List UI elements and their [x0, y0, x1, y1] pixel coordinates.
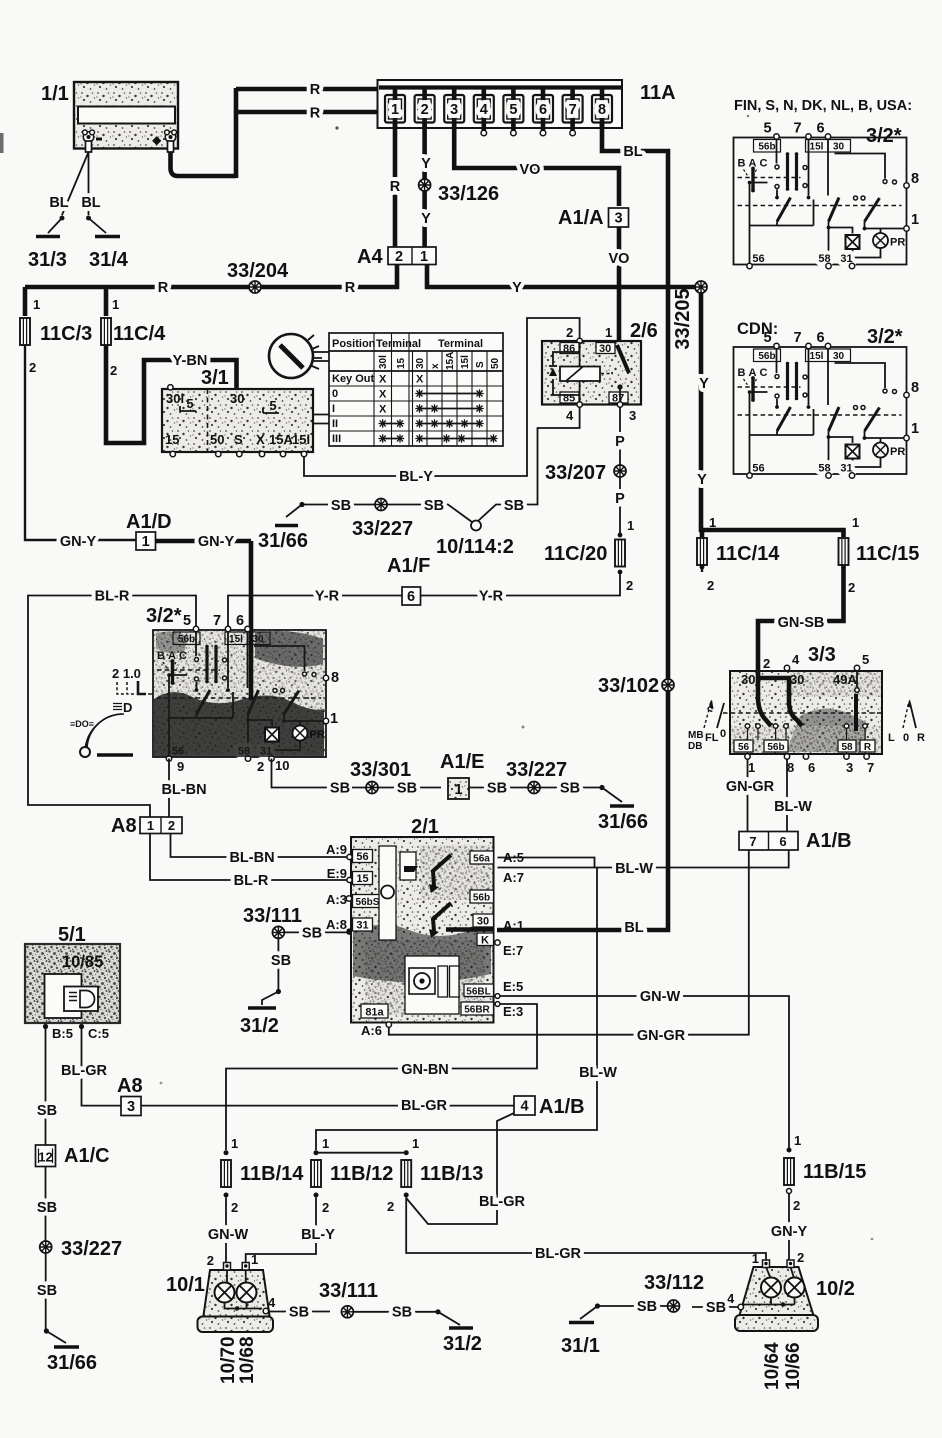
wire BL-W A1/B to 2/1 A:5 A:7 — [498, 850, 789, 877]
svg-text:33/111: 33/111 — [319, 1280, 378, 1302]
svg-text:SB: SB — [331, 498, 351, 514]
fuse 11B/12 — [311, 1136, 393, 1215]
svg-text:4: 4 — [520, 1099, 528, 1115]
ignition key symbol — [269, 334, 329, 378]
ground 31/1 — [561, 1323, 600, 1358]
connector A1/B pins 7 6 — [739, 830, 852, 852]
wire GN-Y 11B/15 to lamp 10/2 — [771, 1194, 808, 1267]
svg-text:10/70: 10/70 — [218, 1336, 239, 1384]
svg-text:1: 1 — [752, 1251, 759, 1266]
svg-text:11B/13: 11B/13 — [420, 1163, 483, 1185]
svg-text:1: 1 — [911, 212, 919, 228]
svg-text:56b: 56b — [767, 742, 784, 753]
svg-text:I: I — [332, 403, 335, 415]
svg-text:GN-Y: GN-Y — [198, 534, 235, 550]
fuse 11C/4 — [101, 287, 166, 378]
connector A8 pin 3 — [117, 1075, 143, 1116]
dimmer control symbol — [70, 666, 153, 757]
svg-text:56: 56 — [356, 851, 368, 863]
svg-text:BL-BN: BL-BN — [229, 850, 274, 866]
svg-text:4: 4 — [792, 652, 800, 667]
svg-text:5: 5 — [269, 398, 276, 413]
svg-text:0: 0 — [720, 728, 726, 740]
connector A1/A pin 3 — [558, 207, 629, 229]
svg-text:SB: SB — [289, 1305, 309, 1321]
svg-text:L: L — [888, 732, 895, 744]
svg-text:VO: VO — [609, 251, 630, 267]
svg-text:56BL: 56BL — [466, 987, 490, 998]
svg-text:1: 1 — [147, 818, 154, 833]
svg-text:GN-GR: GN-GR — [726, 779, 775, 795]
svg-text:15l: 15l — [292, 432, 310, 447]
svg-text:X: X — [416, 374, 424, 386]
svg-text:11C/20: 11C/20 — [544, 543, 607, 565]
svg-text:2: 2 — [395, 249, 403, 265]
svg-text:31/1: 31/1 — [561, 1335, 600, 1357]
svg-text:1: 1 — [605, 325, 612, 340]
svg-text:6: 6 — [779, 834, 786, 849]
fuse 11C/3 — [20, 287, 92, 375]
svg-text:1: 1 — [142, 534, 150, 550]
svg-text:8: 8 — [787, 760, 794, 775]
svg-text:5: 5 — [862, 652, 869, 667]
svg-text:7: 7 — [749, 834, 756, 849]
fuse 11C/20 — [544, 518, 634, 593]
svg-text:2: 2 — [421, 102, 429, 118]
svg-text:BL: BL — [49, 195, 68, 211]
wire BL-GR A8 to A1/B 4 — [141, 1098, 514, 1114]
svg-text:4: 4 — [727, 1291, 735, 1306]
rotated labels 10/70 10/68 — [218, 1336, 258, 1384]
relay 2/6 — [542, 320, 658, 423]
svg-text:SB: SB — [37, 1103, 57, 1119]
svg-text:D: D — [123, 700, 132, 715]
svg-text:E:9: E:9 — [327, 866, 347, 881]
svg-text:30: 30 — [415, 357, 426, 369]
svg-text:A8: A8 — [117, 1075, 143, 1097]
svg-text:11C/14: 11C/14 — [716, 543, 780, 565]
svg-text:1: 1 — [391, 102, 399, 118]
splice 33/111 lower — [319, 1280, 378, 1318]
svg-text:56BR: 56BR — [464, 1005, 490, 1016]
svg-text:A4: A4 — [357, 246, 383, 268]
svg-text:5: 5 — [509, 102, 517, 118]
svg-text:3: 3 — [127, 1099, 135, 1115]
wire SB A1/C to 33/227 — [37, 1167, 57, 1242]
svg-text:SB: SB — [330, 781, 350, 797]
svg-text:BL-W: BL-W — [774, 799, 812, 815]
svg-text:15: 15 — [396, 357, 407, 369]
svg-text:2: 2 — [322, 1200, 329, 1215]
svg-text:2: 2 — [707, 578, 714, 593]
svg-text:56a: 56a — [473, 854, 490, 865]
ground 31/4 — [89, 237, 129, 272]
svg-text:7: 7 — [867, 760, 874, 775]
svg-text:6: 6 — [808, 760, 815, 775]
connector A8 pins 1 2 — [111, 815, 182, 837]
svg-text:1: 1 — [420, 249, 428, 265]
svg-text:86: 86 — [563, 343, 575, 355]
wire BL battery to grounds — [48, 152, 106, 233]
svg-text:2: 2 — [763, 656, 770, 671]
ground 31/3 — [28, 237, 67, 272]
svg-text:1: 1 — [33, 297, 40, 312]
svg-text:31/66: 31/66 — [47, 1352, 97, 1374]
svg-text:33/102: 33/102 — [598, 675, 659, 697]
svg-text:GN-W: GN-W — [640, 989, 681, 1005]
svg-text:GN-GR: GN-GR — [637, 1028, 686, 1044]
rotated labels 10/64 10/66 — [762, 1342, 804, 1390]
svg-text:A8: A8 — [111, 815, 137, 837]
svg-text:BL: BL — [624, 920, 643, 936]
svg-text:1: 1 — [251, 1252, 258, 1267]
svg-text:30: 30 — [741, 672, 755, 687]
svg-text:30: 30 — [477, 916, 489, 928]
svg-text:VO: VO — [520, 162, 541, 178]
fuse 11B/14 — [221, 1136, 304, 1215]
svg-text:12: 12 — [38, 1150, 52, 1165]
battery 1/1 — [41, 82, 178, 152]
svg-text:BL-W: BL-W — [615, 861, 653, 877]
wire BL-GR 5/1 C:5 to A8 — [61, 1029, 121, 1106]
svg-text:BL: BL — [81, 195, 100, 211]
svg-text:4: 4 — [480, 102, 488, 118]
svg-text:Y: Y — [699, 376, 709, 392]
indicator arrows right of 3/3 — [888, 699, 925, 744]
svg-text:A1/C: A1/C — [64, 1145, 110, 1167]
wire BL fuse8 down — [497, 122, 668, 936]
svg-text:10/66: 10/66 — [783, 1342, 804, 1390]
wire Y fuse2 to A4 — [421, 122, 431, 247]
svg-text:C:5: C:5 — [88, 1026, 109, 1041]
wire BL-W 3/3 pin8 to A1/B — [774, 760, 812, 832]
ground 31/2 lower — [443, 1328, 482, 1355]
fuse 11B/15 — [784, 1133, 866, 1213]
svg-text:E:5: E:5 — [503, 979, 523, 994]
svg-text:R: R — [345, 280, 356, 296]
svg-text:1: 1 — [330, 711, 338, 727]
splice 33/301 — [350, 759, 411, 794]
svg-text:10/2: 10/2 — [816, 1278, 855, 1300]
svg-text:11C/3: 11C/3 — [40, 323, 92, 345]
svg-text:2: 2 — [566, 325, 573, 340]
svg-text:33/204: 33/204 — [227, 260, 289, 282]
wire bridge 11B/12 11B/13 pins 1 — [316, 1152, 406, 1154]
connector A1/D pin 1 — [126, 511, 172, 550]
svg-text:33/112: 33/112 — [644, 1272, 704, 1294]
splice 33/126 — [419, 179, 500, 205]
svg-text:R: R — [864, 742, 872, 753]
svg-text:1: 1 — [454, 782, 462, 798]
wire SB 33/227 to ground 31/66 — [37, 1253, 66, 1343]
svg-text:2: 2 — [848, 580, 855, 595]
wire SB to ground 31/66 — [286, 498, 472, 522]
splice 33/102 — [598, 675, 674, 697]
svg-text:2/1: 2/1 — [411, 816, 439, 838]
connector A1/E pin 1 — [440, 751, 484, 799]
svg-text:11C/15: 11C/15 — [856, 543, 919, 565]
svg-text:A:6: A:6 — [361, 1023, 382, 1038]
svg-text:50: 50 — [490, 357, 501, 369]
svg-text:10: 10 — [275, 758, 289, 773]
svg-text:A:9: A:9 — [326, 842, 347, 857]
svg-text:SB: SB — [397, 781, 417, 797]
svg-text:5: 5 — [186, 396, 193, 411]
svg-text:2: 2 — [387, 1199, 394, 1214]
fuse box 11A — [378, 80, 676, 128]
wire BL-R A8 to 2/1 E:9 — [150, 834, 351, 890]
svg-text:50: 50 — [210, 432, 224, 447]
svg-text:30: 30 — [790, 672, 804, 687]
svg-text:11A: 11A — [640, 82, 676, 104]
svg-text:10/68: 10/68 — [237, 1336, 258, 1384]
svg-text:2: 2 — [231, 1200, 238, 1215]
splice 33/227 mid — [506, 759, 567, 794]
connector 10/114:2 — [436, 521, 514, 559]
svg-text:BL-R: BL-R — [234, 873, 269, 889]
svg-text:4: 4 — [268, 1295, 276, 1310]
svg-text:15A: 15A — [269, 432, 293, 447]
svg-text:K: K — [481, 935, 489, 947]
svg-text:81a: 81a — [365, 1007, 384, 1019]
svg-text:1: 1 — [709, 515, 716, 530]
svg-text:1: 1 — [852, 515, 859, 530]
svg-text:6: 6 — [539, 102, 547, 118]
svg-text:3: 3 — [846, 760, 853, 775]
indicator arrows left of 3/3 — [688, 700, 726, 752]
svg-text:X: X — [379, 404, 387, 416]
svg-text:3/2*: 3/2* — [146, 605, 182, 627]
splice 33/227 lower — [40, 1238, 122, 1260]
svg-text:SB: SB — [302, 925, 322, 941]
svg-text:GN-Y: GN-Y — [771, 1224, 808, 1240]
svg-text:5/1: 5/1 — [58, 924, 86, 946]
svg-text:R: R — [917, 732, 925, 744]
svg-text:2: 2 — [207, 1253, 214, 1268]
svg-text:A1/B: A1/B — [806, 830, 852, 852]
svg-text:33/227: 33/227 — [352, 518, 413, 540]
svg-text:SB: SB — [37, 1200, 57, 1216]
svg-text:A:1: A:1 — [503, 918, 524, 933]
svg-text:III: III — [332, 433, 341, 445]
svg-text:Y-R: Y-R — [315, 589, 340, 605]
svg-text:BL-Y: BL-Y — [301, 1227, 335, 1243]
svg-text:1/1: 1/1 — [41, 83, 69, 105]
wire Y-R 11C/20 to A1/F to switch pin 7 — [228, 574, 620, 628]
wire GN-GR 3/3 pin1 to A1/B — [726, 760, 775, 832]
svg-text:SB: SB — [637, 1299, 657, 1315]
wire SB relay 85 to 10/114:2 — [478, 407, 580, 521]
wire SB 2/1 A:8 to 33/111 — [285, 925, 352, 941]
svg-text:4: 4 — [566, 408, 574, 423]
svg-text:10/85: 10/85 — [62, 953, 103, 971]
wire SB 33/111 to ground 31/2 — [262, 939, 291, 1006]
svg-text:8: 8 — [598, 102, 606, 118]
svg-text:7: 7 — [569, 102, 577, 118]
svg-text:A1/D: A1/D — [126, 511, 172, 533]
wire R battery to fusebox — [171, 82, 379, 178]
svg-text:A1/F: A1/F — [387, 555, 430, 577]
svg-text:8: 8 — [331, 670, 339, 686]
splice 33/111 upper — [243, 905, 302, 938]
svg-text:BL-GR: BL-GR — [401, 1098, 447, 1114]
svg-text:49A: 49A — [833, 672, 857, 687]
wire SB 5/1 B:5 to A1/C — [37, 1029, 57, 1145]
switch module 3/3 — [723, 644, 882, 775]
svg-text:≡DO≡: ≡DO≡ — [70, 719, 94, 729]
svg-text:8: 8 — [911, 171, 919, 187]
svg-text:Key Out: Key Out — [332, 373, 375, 385]
svg-text:SB: SB — [424, 498, 444, 514]
svg-text:FL: FL — [705, 732, 719, 744]
fuses 1-8 in 11A — [385, 88, 612, 136]
wire R A4 to left — [25, 265, 397, 297]
ground 31/66 lower — [47, 1347, 97, 1374]
svg-text:2: 2 — [29, 360, 36, 375]
svg-text:33/301: 33/301 — [350, 759, 411, 781]
svg-text:X: X — [379, 374, 387, 386]
svg-text:30l: 30l — [166, 391, 184, 406]
svg-text:E:7: E:7 — [503, 943, 523, 958]
svg-text:2: 2 — [110, 363, 117, 378]
svg-text:BL-W: BL-W — [579, 1065, 617, 1081]
svg-text:30: 30 — [599, 343, 611, 355]
svg-text:15A: 15A — [445, 352, 456, 370]
wire GN-W 2/1 E:5 to 11B/15 — [495, 989, 789, 1148]
svg-text:10/64: 10/64 — [762, 1342, 783, 1390]
wire SB lamp 10/2 to ground 31/1 — [580, 1299, 738, 1319]
splice 33/227 upper — [352, 499, 413, 541]
svg-text:MB: MB — [688, 730, 704, 741]
svg-text:56bS: 56bS — [356, 897, 380, 908]
svg-text:Position: Position — [332, 338, 376, 350]
svg-text:56b: 56b — [473, 893, 490, 904]
svg-text:GN-SB: GN-SB — [778, 615, 825, 631]
svg-text:6: 6 — [407, 589, 415, 605]
svg-text:SB: SB — [487, 781, 507, 797]
svg-text:0: 0 — [903, 732, 909, 744]
svg-text:1: 1 — [627, 518, 634, 533]
svg-text:3/1: 3/1 — [201, 367, 229, 389]
svg-text:15: 15 — [356, 873, 368, 885]
svg-text:X: X — [256, 432, 265, 447]
headlamp switch 3/2 left — [146, 605, 339, 774]
wire BL-GR A1/B to 11B/13 pin2 — [406, 1113, 525, 1224]
svg-text:2: 2 — [626, 578, 633, 593]
svg-text:SB: SB — [392, 1305, 412, 1321]
splice 33/112 — [644, 1272, 704, 1312]
svg-text:33/227: 33/227 — [61, 1238, 122, 1260]
splice 33/205 — [672, 281, 707, 350]
svg-text:E:3: E:3 — [503, 1004, 523, 1019]
svg-text:2: 2 — [257, 759, 264, 774]
lamp 10/2 — [727, 1250, 855, 1331]
wire BL-Y 11B/12 to lamp 10/1 — [246, 1198, 336, 1267]
svg-text:1: 1 — [748, 760, 755, 775]
svg-text:31/66: 31/66 — [258, 530, 308, 552]
svg-text:II: II — [332, 418, 338, 430]
splice 33/207 — [545, 462, 626, 484]
svg-text:56: 56 — [738, 742, 750, 753]
wire BL-W down to 11B/12 — [316, 868, 617, 1151]
svg-text:31/66: 31/66 — [598, 811, 648, 833]
svg-text:2: 2 — [797, 1250, 804, 1265]
svg-text:BL-BN: BL-BN — [161, 782, 206, 798]
svg-text:A:8: A:8 — [326, 917, 347, 932]
svg-text:GN-BN: GN-BN — [401, 1062, 449, 1078]
svg-text:R: R — [310, 82, 321, 98]
svg-text:R: R — [390, 179, 401, 195]
svg-text:A1/B: A1/B — [539, 1096, 585, 1118]
svg-text:A:3: A:3 — [326, 892, 347, 907]
svg-text:GN-Y: GN-Y — [60, 534, 97, 550]
svg-text:0: 0 — [332, 388, 338, 400]
ground 31/2 upper — [240, 1008, 279, 1037]
svg-text:Terminal: Terminal — [376, 338, 421, 350]
svg-text:SB: SB — [706, 1300, 726, 1316]
headlamp switch 3/2 FIN variant — [734, 98, 920, 269]
svg-text:P: P — [615, 434, 625, 450]
svg-text:BL-GR: BL-GR — [61, 1063, 107, 1079]
wire VO A1/A to relay 2/6 pin1 — [609, 227, 630, 341]
connector A4 — [357, 246, 436, 268]
wire GN-SB 11C/15 to 3/3 — [758, 567, 844, 671]
connector A1/C pin 12 — [36, 1145, 110, 1167]
svg-text:1: 1 — [322, 1136, 329, 1151]
svg-text:3/3: 3/3 — [808, 644, 836, 666]
wire SB switch pin10 to ground chain — [272, 759, 442, 797]
svg-text:1: 1 — [794, 1133, 801, 1148]
svg-text:2 1.0: 2 1.0 — [112, 666, 141, 681]
svg-text:31/2: 31/2 — [443, 1333, 482, 1355]
wire GN-BN 2/1 E:3 to 11B/14 — [226, 1002, 537, 1150]
svg-text:9: 9 — [177, 759, 184, 774]
svg-text:33/111: 33/111 — [243, 905, 302, 927]
svg-text:33/126: 33/126 — [438, 183, 499, 205]
svg-text:Y: Y — [512, 280, 522, 296]
svg-text:2: 2 — [168, 818, 175, 833]
svg-text:31/4: 31/4 — [89, 249, 129, 271]
svg-text:CDN:: CDN: — [737, 320, 778, 338]
svg-text:33/205: 33/205 — [672, 288, 694, 349]
wire R fuse1 to A4 — [390, 122, 401, 247]
svg-text:R: R — [158, 280, 169, 296]
connector A1/F pin 6 — [387, 555, 430, 605]
svg-text:A:7: A:7 — [503, 870, 524, 885]
svg-text:Y: Y — [697, 472, 707, 488]
svg-text:10/114:2: 10/114:2 — [436, 536, 514, 558]
svg-text:Y: Y — [421, 211, 431, 227]
svg-text:11C/4: 11C/4 — [113, 323, 166, 345]
wire P relay 87 to 11C/20 — [615, 407, 625, 533]
svg-text:1: 1 — [112, 297, 119, 312]
wire BL-GR 11B/13 to lamp 10/2 — [406, 1198, 766, 1267]
svg-text:BL-R: BL-R — [95, 589, 130, 605]
svg-text:3: 3 — [629, 408, 636, 423]
splice 33/204 — [227, 260, 289, 293]
ground 31/66 upper — [258, 526, 308, 553]
svg-text:8: 8 — [911, 380, 919, 396]
svg-text:31: 31 — [356, 920, 368, 932]
svg-text:31/3: 31/3 — [28, 249, 67, 271]
svg-text:3: 3 — [614, 211, 622, 227]
wire BL-Y ignition 15l to relay 2/6 pin 2 — [304, 318, 580, 485]
svg-text:PR: PR — [310, 729, 325, 741]
svg-text:Y: Y — [421, 156, 431, 172]
svg-text:P: P — [615, 491, 625, 507]
svg-text:SB: SB — [560, 781, 580, 797]
svg-text:X: X — [379, 389, 387, 401]
